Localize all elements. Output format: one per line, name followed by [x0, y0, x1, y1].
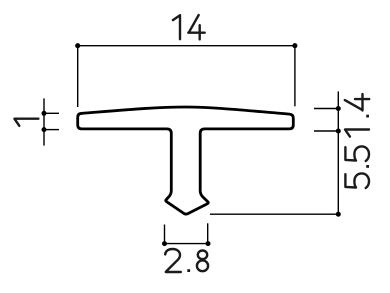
- dimension 5.5 label: [345, 146, 369, 188]
- dimension 5.5 extension line: [210, 213, 338, 215]
- dimension 1.4 / 5.5 vertical line: [337, 91, 339, 214]
- dimension 2.8 left extension line: [164, 225, 166, 244]
- dimension 1.4 label: [345, 94, 369, 137]
- dimension 1.4 upper dot: [336, 106, 341, 111]
- dimension 14 left extension line: [77, 46, 79, 107]
- dimension 14 line: [78, 45, 295, 47]
- dimension 2.8 line: [165, 243, 209, 245]
- dimension 1.4 lower tick: [314, 130, 338, 132]
- dimension 1 lower tick: [44, 129, 59, 131]
- dimension 1 line: [43, 98, 45, 145]
- dimension 2.8 right extension line: [207, 223, 209, 243]
- dimension 14 right extension line: [294, 46, 296, 107]
- dimension 1 label: [14, 119, 38, 126]
- dimension 14 label: [173, 15, 205, 39]
- dimension 1.4 lower dot: [336, 129, 341, 134]
- dimension 1 upper dot: [42, 111, 47, 116]
- dimension 14 right dot: [292, 43, 297, 48]
- dimension 2.8 left dot: [162, 241, 167, 246]
- dimension 2.8 label: [165, 249, 208, 272]
- dimension 14 left dot: [75, 43, 80, 48]
- dimension 1.4 upper tick: [314, 108, 338, 110]
- dimension 1 upper tick: [44, 112, 59, 114]
- dimension 2.8 right dot: [206, 241, 211, 246]
- dimension 5.5 bottom dot: [336, 212, 341, 217]
- T-profile outline: [78, 107, 294, 214]
- dimension 1 lower dot: [42, 127, 47, 132]
